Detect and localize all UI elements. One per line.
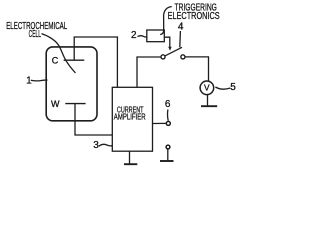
label: ELECTROCHEMICAL CELL — [6, 21, 67, 40]
label: TRIGGERING ELECTRONICS — [168, 2, 220, 22]
svg-text:ELECTRONICS: ELECTRONICS — [168, 11, 220, 22]
leader for label 5 — [215, 87, 230, 89]
output wire to terminal 6 — [153, 122, 166, 124]
leader from TRIGGERING label into box — [160, 7, 172, 35]
wire: C electrode up and over to amplifier top — [74, 37, 117, 87]
output terminal 6 — [166, 121, 170, 125]
svg-text:5: 5 — [230, 82, 236, 93]
svg-text:C: C — [52, 56, 59, 66]
svg-text:3: 3 — [93, 140, 99, 151]
ground under voltmeter — [207, 95, 209, 106]
ground under amplifier — [129, 151, 131, 163]
leader for label 2 — [138, 36, 147, 37]
ground under open terminal — [167, 149, 169, 160]
wire: amplifier top to switch left contact — [137, 57, 161, 87]
open terminal lower right — [166, 145, 170, 149]
switch arm — [165, 47, 182, 56]
control arrow from triggering electronics to switch — [164, 37, 170, 47]
svg-text:2: 2 — [131, 30, 137, 41]
svg-text:6: 6 — [165, 99, 171, 110]
leader for label 4 — [179, 31, 182, 47]
wire: switch right contact to voltmeter — [185, 57, 209, 81]
current amplifier box 3 — [112, 87, 152, 151]
triggering electronics box 2 — [147, 30, 165, 42]
switch 4 right contact — [181, 55, 185, 59]
leader for label 1 — [31, 79, 48, 82]
leader from CELL label into cell — [42, 34, 76, 73]
svg-text:V: V — [204, 83, 210, 93]
working electrode W bar — [65, 103, 85, 105]
counter electrode C bar — [64, 59, 85, 61]
electrochemical cell body — [46, 47, 97, 121]
leader for label 6 — [167, 110, 170, 121]
svg-text:4: 4 — [178, 22, 184, 33]
switch 4 left contact — [161, 55, 165, 59]
svg-text:W: W — [51, 99, 60, 109]
svg-text:CELL: CELL — [29, 29, 42, 40]
leader for label 3 — [99, 144, 113, 146]
voltmeter 5 — [200, 81, 214, 95]
svg-text:AMPLIFIER: AMPLIFIER — [114, 112, 146, 122]
wire: W electrode to amplifier input — [75, 104, 112, 135]
